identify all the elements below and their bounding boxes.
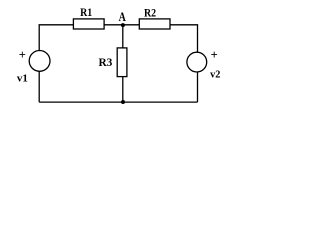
- wire v1 bottom down to bottom-left corner: [38, 71, 40, 102]
- wire bottom: [39, 101, 197, 103]
- bottom junction dot: [121, 100, 125, 104]
- voltage source v1: [29, 51, 50, 72]
- svg-text:R3: R3: [98, 55, 112, 69]
- svg-text:v2: v2: [210, 68, 220, 80]
- wire from R2 right to corner and down to v2: [170, 25, 197, 53]
- svg-text:R1: R1: [80, 7, 92, 19]
- resistor R3: [117, 48, 127, 77]
- node A junction dot: [121, 23, 125, 27]
- wire top-left segment from v1 up and right to R1: [39, 25, 73, 51]
- wire v2 bottom down to bottom-right corner: [197, 72, 199, 102]
- wire node A down to R3 top: [122, 25, 124, 48]
- wire between R1 and R2 through node A: [104, 24, 139, 26]
- wire R3 bottom to bottom junction: [122, 77, 124, 103]
- svg-text:A: A: [119, 9, 127, 24]
- resistor R2: [139, 19, 170, 29]
- svg-text:v1: v1: [17, 72, 28, 84]
- resistor R1: [73, 19, 104, 29]
- svg-text:R2: R2: [144, 8, 156, 20]
- svg-text:+: +: [211, 48, 218, 62]
- svg-text:+: +: [19, 48, 26, 62]
- voltage source v2: [187, 52, 207, 72]
